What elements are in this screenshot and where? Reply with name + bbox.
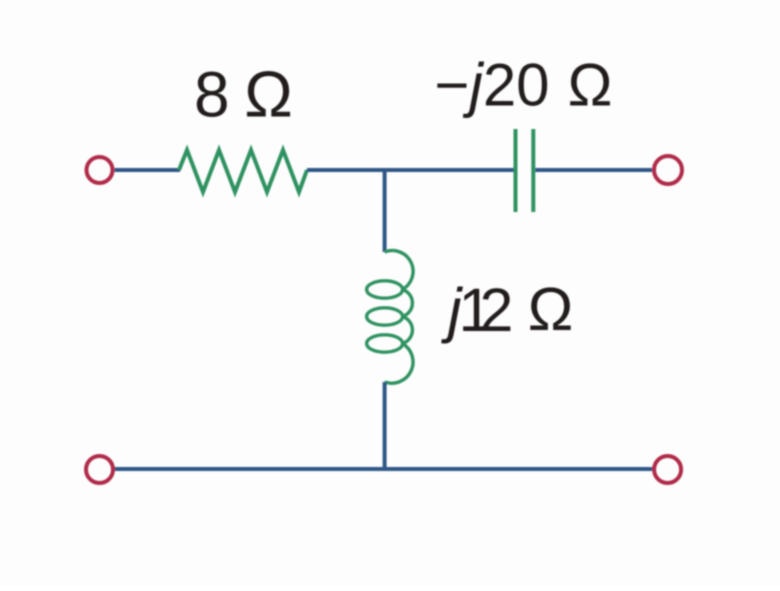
inductor loop 1 (367, 281, 403, 298)
svg-text:8: 8 (194, 59, 230, 131)
svg-text:−j20: −j20 (434, 52, 549, 119)
svg-text:j12: j12 (441, 276, 513, 344)
resistor R (8 ohm) zigzag (179, 150, 307, 192)
terminal bottom-left (86, 456, 113, 483)
inductor bottom arc (385, 344, 413, 384)
inductor L (j12 ohm) top arc (385, 251, 413, 290)
wire junction down to inductor (383, 168, 387, 252)
svg-text:Ω: Ω (528, 275, 574, 343)
capacitor C (-j20 ohm) right plate (531, 129, 535, 212)
capacitor C (-j20 ohm) left plate (514, 129, 518, 212)
inductor right arc 2 (402, 317, 412, 344)
svg-text:Ω: Ω (244, 58, 293, 131)
svg-text:Ω: Ω (568, 52, 613, 119)
terminal bottom-right (654, 456, 681, 483)
wire top-left segment (115, 168, 181, 172)
terminal top-left (87, 157, 113, 183)
inductor loop 2 (367, 308, 403, 325)
inductor loop 3 (367, 335, 403, 352)
wire capacitor to right terminal (535, 168, 652, 172)
wire resistor to capacitor left plate (307, 168, 514, 172)
inductor right arc 1 (402, 290, 412, 317)
wire inductor down to bottom rail (383, 382, 387, 471)
terminal top-right (654, 156, 682, 184)
wire bottom rail (115, 467, 653, 471)
